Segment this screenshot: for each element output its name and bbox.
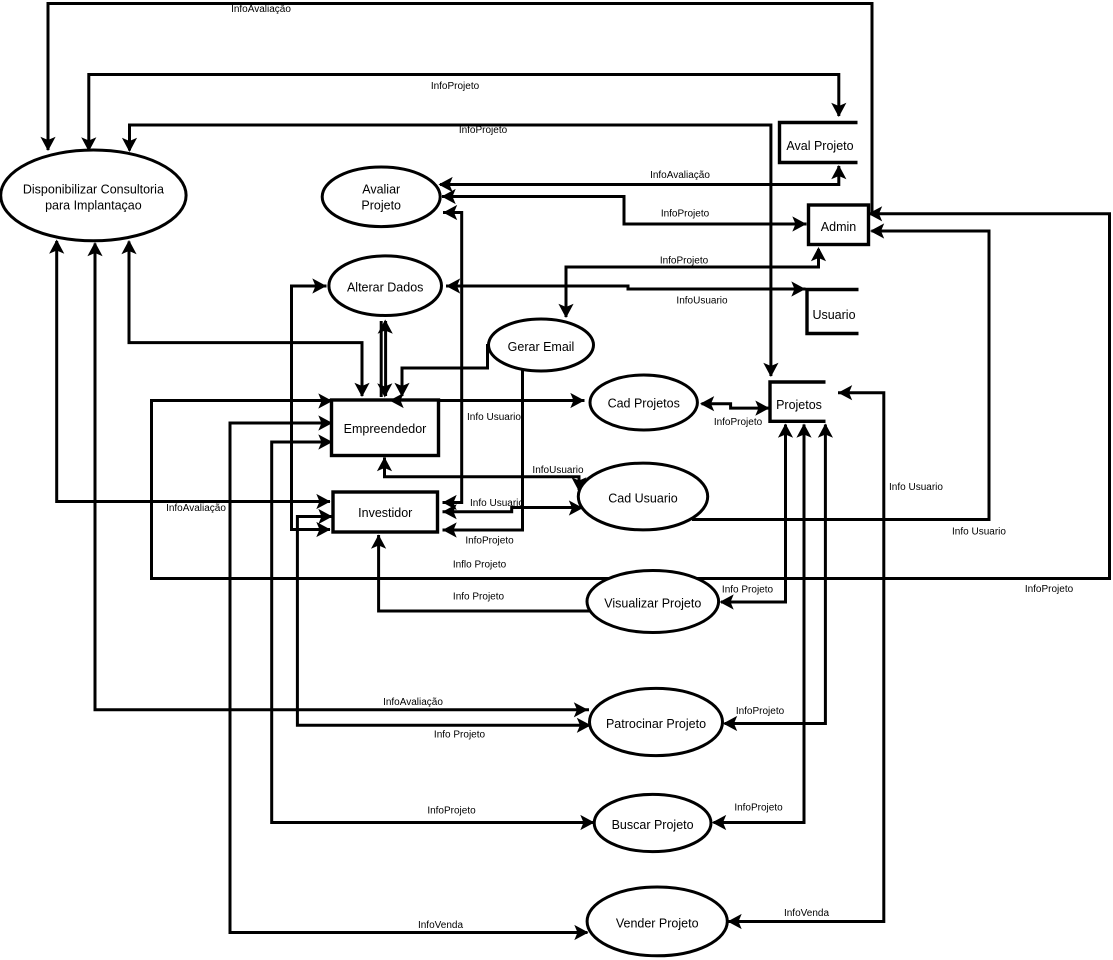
svg-text:Investidor: Investidor — [358, 506, 412, 520]
svg-text:InfoAvaliação: InfoAvaliação — [383, 697, 443, 708]
svg-text:Buscar Projeto: Buscar Projeto — [612, 818, 694, 832]
flow Disponibilizar to Empreendedor — [121, 240, 369, 397]
svg-text:Empreendedor: Empreendedor — [344, 422, 427, 436]
flow Alterar Dados to Investidor — [292, 278, 331, 537]
svg-text:InfoAvaliação: InfoAvaliação — [166, 503, 226, 514]
flow Info Projeto Projetos to Visualizar Projeto — [720, 424, 794, 610]
process Patrocinar Projeto — [590, 688, 723, 755]
flow InfoUsuario Empreendedor to Cad Usuario — [377, 457, 587, 492]
svg-text:InfoProjeto: InfoProjeto — [736, 706, 785, 717]
svg-text:InfoVenda: InfoVenda — [784, 908, 829, 919]
svg-text:Usuario: Usuario — [812, 308, 855, 322]
svg-text:InfoUsuario: InfoUsuario — [676, 296, 728, 307]
svg-text:InfoProjeto: InfoProjeto — [465, 536, 514, 547]
svg-text:Admin: Admin — [821, 220, 856, 234]
flow Info Usuario Cad Usuario to Admin — [692, 223, 1006, 537]
svg-text:Info Projeto: Info Projeto — [434, 730, 486, 741]
svg-text:InfoProjeto: InfoProjeto — [660, 256, 709, 267]
svg-text:InfoUsuario: InfoUsuario — [532, 465, 584, 476]
flow InfoAvaliacao Admin to Disponibilizar — [40, 4, 872, 214]
process Cad Usuario — [578, 463, 707, 530]
flow InfoProjeto Avaliar Projeto to Admin — [442, 189, 807, 232]
flow Alterar Dados to Empreendedor up — [378, 320, 393, 398]
flow InfoVenda Projetos to Vender Projeto — [728, 385, 884, 929]
process Disponibilizar Consultoria para Implantacao — [1, 150, 186, 241]
flow InfoUsuario Alterar Dados to Usuario — [446, 278, 806, 306]
svg-text:Visualizar Projeto: Visualizar Projeto — [604, 597, 701, 611]
flow InfoProjeto Projetos to Disponibilizar — [122, 125, 779, 377]
data store Aval Projeto — [780, 123, 858, 163]
svg-text:Info Usuario: Info Usuario — [889, 482, 943, 493]
wire arrowhead Info Usuario Cad Projetos to Empreendedor — [390, 393, 404, 408]
flow InfoVenda Empreendedor to Vender Projeto — [230, 415, 589, 940]
svg-text:Avaliar: Avaliar — [362, 183, 400, 197]
svg-text:Inflo Projeto: Inflo Projeto — [453, 560, 507, 571]
flow Alterar Dados to Empreendedor down — [377, 321, 392, 398]
svg-text:Cad Usuario: Cad Usuario — [608, 492, 678, 506]
svg-text:Alterar Dados: Alterar Dados — [347, 281, 423, 295]
process Visualizar Projeto — [587, 571, 719, 633]
process Vender Projeto — [587, 887, 727, 956]
flow InfoProjeto Gerar Email to Admin — [558, 247, 826, 318]
svg-text:InfoProjeto: InfoProjeto — [427, 806, 476, 817]
flow InfoAvaliacao Disponibilizar to Investidor — [49, 240, 330, 515]
svg-text:InfoProjeto: InfoProjeto — [431, 81, 480, 92]
process Avaliar Projeto — [322, 167, 440, 227]
svg-text:Projetos: Projetos — [776, 398, 822, 412]
flow Info Projeto Visualizar Projeto to Investidor — [371, 535, 591, 612]
svg-text:InfoAvaliação: InfoAvaliação — [231, 4, 291, 15]
entity Empreendedor — [332, 400, 439, 456]
flow InfoProjeto Projetos to Buscar Projeto — [712, 424, 812, 831]
entity Admin — [809, 205, 869, 245]
svg-text:Projeto: Projeto — [361, 199, 401, 213]
svg-text:para Implantaçao: para Implantaçao — [45, 199, 142, 213]
svg-text:Info Usuario: Info Usuario — [470, 498, 524, 509]
svg-text:InfoAvaliação: InfoAvaliação — [650, 170, 710, 181]
svg-text:Vender Projeto: Vender Projeto — [616, 917, 699, 931]
data store Usuario — [807, 290, 859, 334]
svg-text:Cad Projetos: Cad Projetos — [608, 397, 680, 411]
svg-text:Patrocinar Projeto: Patrocinar Projeto — [606, 717, 706, 731]
data store Projetos — [770, 382, 826, 421]
flow Gerar Email to Empreendedor — [394, 344, 487, 397]
flow InfoProjeto Gerar Email to Investidor — [443, 369, 523, 547]
svg-text:Info Projeto: Info Projeto — [453, 592, 505, 603]
flow InfoProjeto Aval Projeto to Disponibilizar — [81, 75, 846, 152]
flow InfoAvaliacao Disponibilizar to Patrocinar Projeto — [87, 242, 589, 717]
flow InfoProjeto Empreendedor to Buscar Projeto — [272, 434, 595, 830]
flow Info Usuario Empreendedor to Cad Projetos — [391, 393, 585, 423]
process Cad Projetos — [590, 375, 697, 430]
process Alterar Dados — [329, 256, 442, 316]
svg-text:Info Usuario: Info Usuario — [952, 527, 1006, 538]
flow Info Usuario Investidor to Cad Usuario — [443, 498, 584, 519]
svg-text:Info Projeto: Info Projeto — [722, 585, 774, 596]
svg-text:InfoVenda: InfoVenda — [418, 920, 463, 931]
svg-text:InfoProjeto: InfoProjeto — [734, 803, 783, 814]
process Buscar Projeto — [594, 794, 711, 851]
flow InfoAvaliacao Avaliar Projeto to Aval Projeto — [439, 165, 847, 192]
flow Info Projeto Investidor to Patrocinar Projeto — [297, 509, 591, 741]
svg-text:InfoProjeto: InfoProjeto — [1025, 584, 1074, 595]
svg-text:InfoProjeto: InfoProjeto — [714, 417, 763, 428]
process Gerar Email — [489, 319, 594, 371]
flow Avaliar Projeto to Investidor — [443, 205, 462, 510]
entity Investidor — [333, 492, 438, 532]
svg-text:InfoProjeto: InfoProjeto — [459, 125, 508, 136]
svg-text:Info Usuario: Info Usuario — [467, 412, 521, 423]
svg-text:Gerar Email: Gerar Email — [508, 340, 575, 354]
flow InfoProjeto Cad Projetos to Projetos — [700, 396, 770, 428]
svg-text:Disponibilizar Consultoria: Disponibilizar Consultoria — [23, 183, 164, 197]
flow Inflo Projeto Empreendedor to Admin — [152, 206, 1110, 595]
svg-text:InfoProjeto: InfoProjeto — [661, 209, 710, 220]
flow InfoProjeto Projetos to Patrocinar Projeto — [723, 424, 833, 732]
svg-text:Aval Projeto: Aval Projeto — [786, 139, 853, 153]
